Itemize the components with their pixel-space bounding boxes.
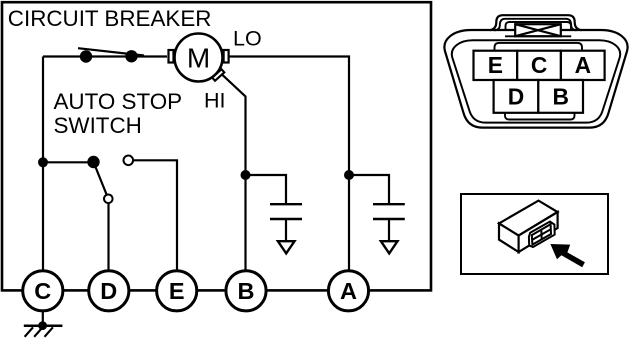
connector housing inner line — [452, 40, 620, 122]
terminal C — [23, 271, 63, 311]
schematic border box — [2, 2, 431, 290]
svg-text:D: D — [100, 278, 117, 304]
terminal B — [226, 271, 266, 311]
wire: from open terminal to E — [128, 160, 177, 272]
relay connector block — [529, 222, 555, 248]
capacitor B bottom plate — [270, 218, 302, 220]
svg-text:A: A — [340, 278, 357, 304]
breaker contact dot left — [80, 50, 92, 62]
svg-text:C: C — [531, 52, 547, 78]
connector cavity slot bottom — [505, 113, 575, 120]
connector pin D — [494, 80, 539, 113]
ground hatch 2 — [34, 327, 42, 337]
wire: motor LO to A column — [230, 57, 350, 273]
svg-text:E: E — [488, 52, 503, 78]
svg-text:CIRCUIT BREAKER: CIRCUIT BREAKER — [8, 6, 212, 31]
node dot A column — [344, 170, 354, 180]
motor terminal right — [224, 50, 229, 63]
svg-text:SWITCH: SWITCH — [54, 113, 142, 138]
wire: A branch to capacitor — [349, 175, 389, 204]
connector housing outer — [444, 30, 627, 128]
terminal E — [157, 271, 197, 311]
breaker contact dot right — [125, 50, 137, 62]
terminal D — [89, 271, 129, 311]
connector pin B — [538, 80, 583, 113]
wire: breaker top horizontal — [43, 55, 167, 57]
connector pin E — [474, 51, 518, 80]
ground hatch 1 — [25, 327, 33, 337]
node dot B column — [241, 170, 251, 180]
wire: capacitor A to arrow — [388, 219, 390, 241]
svg-text:A: A — [575, 52, 591, 78]
connector pin C — [517, 51, 561, 80]
relay pointer arrow — [550, 244, 585, 267]
ground hatch 3 — [45, 327, 53, 337]
capacitor A bottom plate — [373, 218, 405, 220]
svg-text:B: B — [238, 278, 255, 304]
open terminal circle (E branch) — [124, 156, 134, 166]
svg-text:M: M — [187, 42, 210, 73]
svg-text:D: D — [508, 84, 524, 110]
wire: motor HI to B column — [222, 75, 245, 272]
svg-text:HI: HI — [204, 89, 226, 113]
capacitor B top plate — [270, 203, 302, 205]
relay location box — [461, 194, 608, 274]
motor terminal left — [169, 50, 174, 63]
auto stop switch blade — [94, 162, 109, 199]
ground bar — [24, 325, 63, 328]
svg-text:LO: LO — [233, 26, 262, 50]
motor M — [175, 34, 223, 82]
connector lock shelf line — [505, 35, 571, 37]
terminal A — [328, 271, 368, 311]
auto stop switch contact dot — [87, 156, 99, 168]
ground arrow A — [381, 241, 398, 253]
connector pin A — [561, 51, 605, 80]
motor terminal HI (rotated) — [212, 69, 224, 80]
node dot on left vertical — [38, 157, 48, 167]
relay unit right face — [519, 212, 558, 252]
svg-text:E: E — [169, 278, 185, 304]
connector lock bridge — [506, 22, 572, 31]
capacitor A top plate — [373, 203, 405, 205]
wire: open contact down to D — [107, 199, 109, 272]
wire: B branch to capacitor — [246, 175, 287, 204]
ground junction dot — [38, 321, 47, 330]
wire: to auto stop switch contact — [43, 161, 94, 163]
wire: left vertical down to C — [42, 57, 44, 273]
connector inner lip — [495, 43, 583, 51]
connector lock tab outer — [490, 15, 582, 30]
connector crossed lock box — [515, 24, 561, 36]
relay unit left face — [499, 223, 519, 252]
circuit breaker blade — [78, 48, 144, 55]
svg-text:AUTO STOP: AUTO STOP — [54, 89, 183, 114]
ground arrow B — [278, 241, 295, 253]
connector lock tab inner line — [495, 19, 577, 31]
svg-text:B: B — [552, 84, 568, 110]
relay unit top face — [499, 201, 558, 236]
wire: capacitor B to arrow — [285, 219, 287, 241]
open contact circle above D — [104, 195, 113, 204]
ground stub below C — [42, 310, 44, 326]
svg-text:C: C — [34, 278, 51, 304]
